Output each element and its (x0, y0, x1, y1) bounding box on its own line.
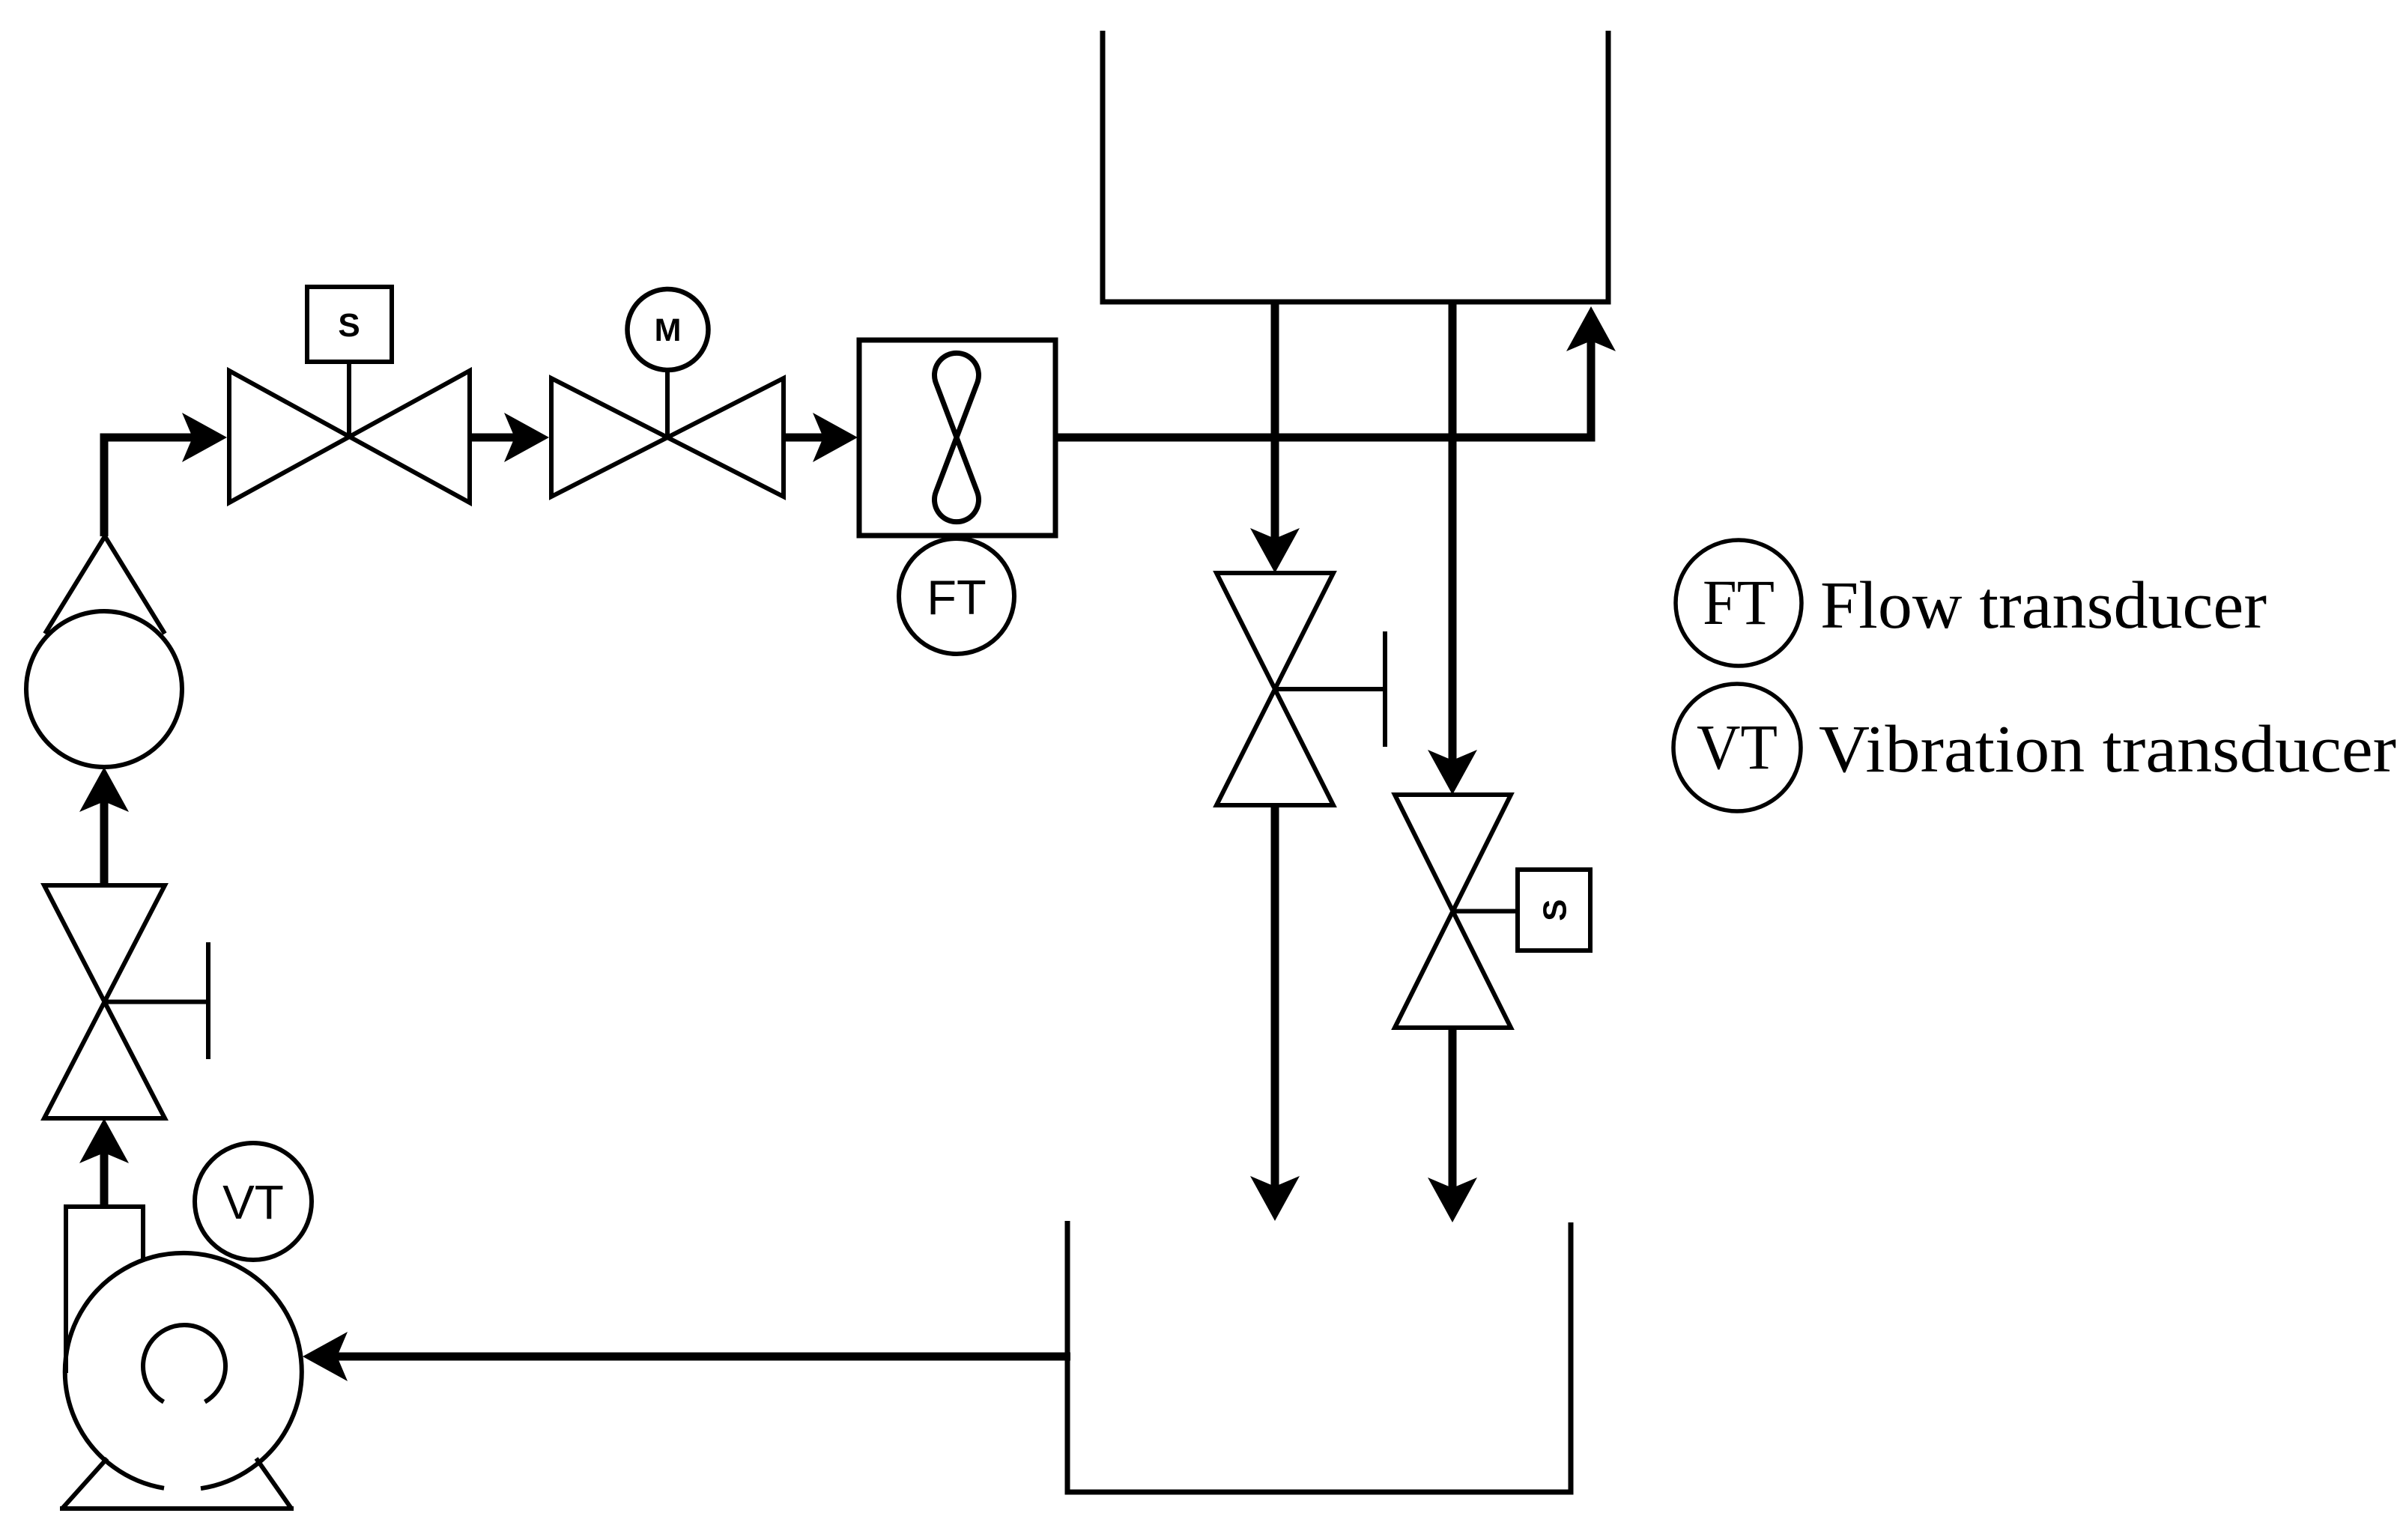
svg-text:VT: VT (1697, 711, 1778, 783)
strainer F1 circle (26, 611, 182, 767)
upper tank T1 (open top) (1103, 31, 1608, 302)
arrowhead into flow meter FM1 (813, 413, 858, 462)
wire: pump outlet to valve V1 (100, 1153, 109, 1207)
motor valve MV1 actuator circle (628, 289, 709, 370)
svg-text:M: M (655, 312, 682, 348)
pipe: flow meter FM1 to upper tank riser (1055, 341, 1591, 437)
vibration transducer circle VT on pump (195, 1143, 312, 1260)
svg-text:S: S (338, 307, 360, 344)
solenoid valve SV1 stem (347, 362, 351, 437)
arrowhead up into upper tank T1 (1566, 306, 1616, 351)
solenoid valve SV1 bowtie (229, 371, 470, 503)
flow transducer circle FT under flow meter (899, 539, 1014, 654)
pipe: strainer F1 up and right to valve SV1 (elbow) (104, 437, 193, 536)
motor valve MV1 bowtie (551, 378, 784, 497)
strainer F1 cone (45, 536, 165, 634)
lower tank T2 (open top) (1067, 1221, 1571, 1492)
pump P1 volute outer casing (65, 1253, 302, 1488)
pipe: upper tank T1 drop 1 to valve V3 (1271, 302, 1279, 539)
svg-text:Vibration transducer: Vibration transducer (1819, 712, 2396, 786)
arrowhead into valve V1 (79, 1118, 129, 1163)
svg-text:S: S (1537, 899, 1574, 921)
legend vibration transducer symbol (1673, 684, 1801, 811)
arrowhead into valve MV1 (504, 413, 549, 462)
arrowhead into pump P1 (303, 1332, 348, 1381)
flow meter FM1 rotor (figure eight) (935, 353, 979, 521)
svg-text:FT: FT (1703, 566, 1775, 638)
pipe: MV1 to flow meter FM1 (784, 434, 823, 442)
arrowhead into valve V3 (1250, 528, 1300, 573)
arrowhead into lower tank T2 (left drop) (1250, 1176, 1300, 1221)
pipe: SV1 to motor valve MV1 (470, 434, 515, 442)
arrowhead into lower tank T2 (right drop) (1428, 1177, 1477, 1222)
arrowhead into valve SV2 (1428, 750, 1477, 795)
solenoid valve SV1 actuator box (307, 287, 392, 362)
pipe: valve SV2 down to lower tank T2 (1449, 1028, 1457, 1188)
wire: valve V1 to strainer F1 (100, 801, 109, 885)
pump P1 base (60, 1458, 294, 1509)
motor valve MV1 stem (665, 370, 670, 437)
pipe: valve V3 down to lower tank T2 (1271, 805, 1279, 1186)
solenoid valve SV2 stem (1453, 909, 1518, 914)
arrowhead into strainer F1 (79, 767, 129, 812)
legend flow transducer symbol (1676, 540, 1802, 666)
solenoid valve SV2 actuator box (1518, 870, 1590, 951)
svg-text:FT: FT (927, 570, 986, 625)
valve V1 handle (105, 942, 209, 1059)
pipe: lower tank T2 return to pump P1 (337, 1353, 1070, 1361)
svg-text:VT: VT (222, 1175, 284, 1229)
pump P1 impeller inner arc (143, 1325, 225, 1402)
pump P1 outlet stub (66, 1207, 143, 1373)
pipe: upper tank T1 drop 2 to valve SV2 (1449, 302, 1457, 760)
valve V3 manual (vertical bowtie) (1216, 573, 1333, 805)
valve V1 manual (vertical bowtie) (44, 885, 165, 1118)
svg-text:Flow transducer: Flow transducer (1820, 569, 2267, 643)
solenoid valve SV2 bowtie (vertical) (1395, 795, 1511, 1028)
flow meter FM1 body (859, 340, 1055, 536)
arrowhead into valve SV1 (182, 413, 227, 462)
valve V3 handle (1275, 631, 1385, 747)
